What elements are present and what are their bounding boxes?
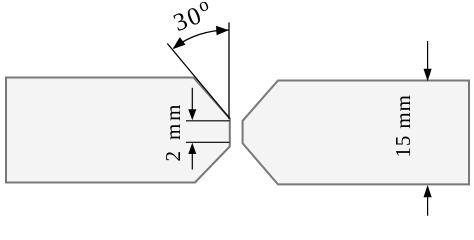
arc arrowhead left — [173, 37, 186, 49]
2mm lower arrowhead (up) — [188, 143, 196, 154]
2mm dimension line lower segment — [191, 152, 193, 170]
svg-text:2 mm: 2 mm — [161, 105, 185, 162]
arc arrowhead right — [216, 26, 229, 35]
vertical extension line — [228, 22, 230, 119]
bevel extension line — [167, 44, 230, 119]
lower extension line (2mm) — [186, 141, 230, 143]
15mm upper arrowhead (down) — [424, 69, 432, 81]
15mm dimension line lower segment — [427, 194, 429, 216]
upper extension line (2mm) — [186, 120, 230, 122]
right plate — [243, 81, 469, 185]
15mm lower arrowhead (up) — [424, 185, 432, 197]
svg-text:15 mm: 15 mm — [391, 95, 415, 158]
15mm dimension line upper segment — [427, 41, 429, 72]
2mm upper arrowhead (down) — [188, 109, 196, 120]
2mm dimension line upper segment — [191, 88, 193, 112]
angle arc — [174, 30, 229, 48]
left plate — [6, 78, 230, 183]
